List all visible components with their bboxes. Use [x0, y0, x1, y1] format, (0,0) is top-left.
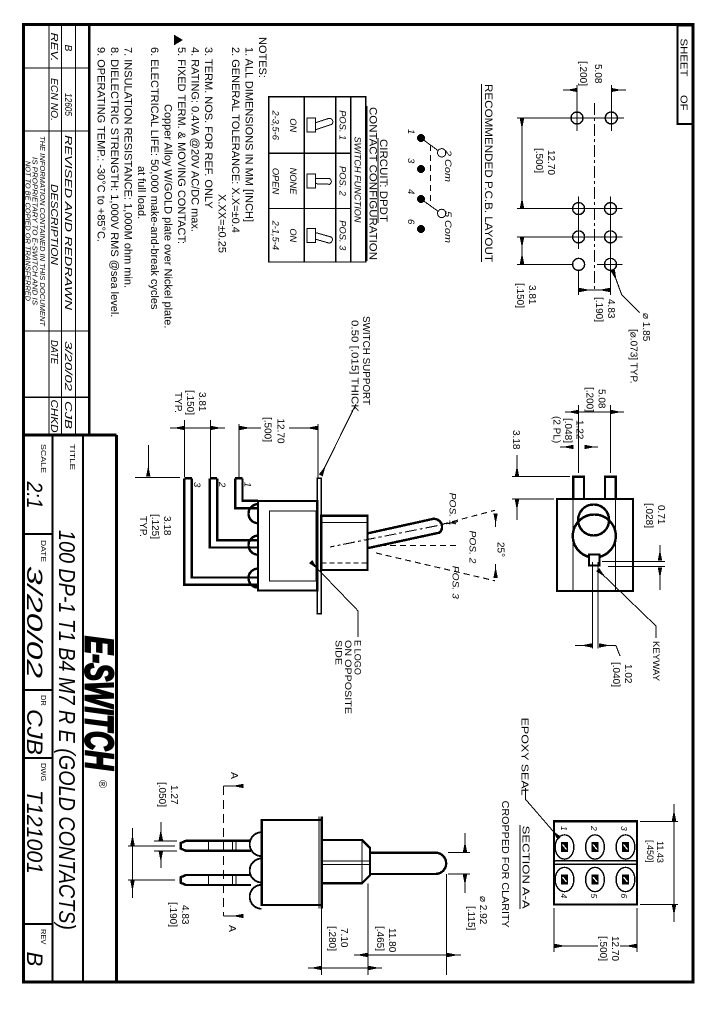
svg-text:DATE: DATE: [39, 540, 48, 562]
svg-text:[.200]: [.200]: [584, 387, 595, 412]
svg-text:[.040]: [.040]: [610, 662, 621, 687]
svg-text:⌀ 2.92: ⌀ 2.92: [477, 896, 488, 925]
svg-text:[.150]: [.150]: [514, 283, 525, 308]
svg-text:2: 2: [589, 825, 599, 831]
svg-text:X.XX=±0.25: X.XX=±0.25: [216, 194, 228, 253]
svg-text:DATE: DATE: [48, 340, 59, 364]
svg-text:25°: 25°: [495, 542, 506, 557]
svg-text:SIDE: SIDE: [334, 640, 344, 665]
svg-text:11.80: 11.80: [386, 928, 397, 953]
svg-text:1: 1: [559, 826, 569, 831]
svg-text:11.43: 11.43: [655, 841, 665, 863]
svg-text:OPEN: OPEN: [271, 168, 281, 195]
svg-text:POS. 3: POS. 3: [451, 566, 461, 600]
svg-text:THE INFORMATION CONTAINED IN T: THE INFORMATION CONTAINED IN THIS DOCUME…: [38, 136, 45, 327]
svg-text:at full load.: at full load.: [135, 166, 147, 219]
svg-text:CHKD: CHKD: [48, 400, 59, 433]
svg-text:1.27: 1.27: [168, 785, 179, 805]
svg-text:3.81: 3.81: [196, 392, 207, 412]
svg-text:Copper Alloy W/GOLD plate over: Copper Alloy W/GOLD plate over Nickel pl…: [162, 104, 174, 328]
svg-text:1. ALL DIMENSIONS IN MM [INCH]: 1. ALL DIMENSIONS IN MM [INCH]: [243, 47, 255, 222]
svg-text:[.450]: [.450]: [645, 840, 655, 863]
svg-text:5 Com: 5 Com: [442, 211, 453, 243]
svg-text:4.83: 4.83: [179, 905, 190, 925]
svg-text:[.150]: [.150]: [184, 390, 195, 415]
svg-text:3: 3: [619, 826, 629, 831]
svg-text:NOTES:: NOTES:: [256, 37, 268, 78]
svg-text:NOT TO BE COPIED OR TRANSFERRE: NOT TO BE COPIED OR TRANSFERRED: [24, 161, 31, 301]
svg-text:4: 4: [405, 189, 416, 194]
svg-text:9. OPERATING TEMP.: -30°C to +: 9. OPERATING TEMP.: -30°C to +85°C.: [94, 47, 106, 242]
svg-text:[.280]: [.280]: [326, 926, 337, 951]
svg-text:2. GENERAL TOLERANCE: X.X=±0.4: 2. GENERAL TOLERANCE: X.X=±0.4: [229, 47, 241, 233]
svg-text:E LOGO: E LOGO: [353, 640, 363, 675]
svg-text:NONE: NONE: [288, 168, 298, 196]
svg-text:TYP.: TYP.: [172, 392, 183, 413]
svg-text:A: A: [228, 772, 240, 779]
svg-text:[.500]: [.500]: [533, 148, 544, 173]
svg-text:12605: 12605: [62, 93, 73, 116]
svg-text:6: 6: [619, 894, 629, 899]
svg-text:B: B: [62, 45, 73, 52]
svg-text:[.200]: [.200]: [577, 61, 588, 86]
svg-text:CJB: CJB: [62, 401, 73, 429]
svg-text:SHEET: SHEET: [678, 39, 690, 78]
svg-text:TITLE: TITLE: [68, 444, 77, 470]
svg-text:B: B: [22, 952, 47, 967]
svg-text:DWG: DWG: [39, 763, 48, 781]
svg-text:5.08: 5.08: [592, 64, 603, 84]
svg-text:2-1,5-4: 2-1,5-4: [271, 220, 281, 250]
svg-text:KEYWAY: KEYWAY: [651, 641, 661, 681]
svg-text:8. DIELECTRIC STRENGTH: 1,000V: 8. DIELECTRIC STRENGTH: 1,000V RMS @sea …: [108, 47, 120, 317]
svg-text:⌀ 1.85: ⌀ 1.85: [640, 313, 651, 342]
svg-text:SCALE: SCALE: [39, 444, 48, 473]
svg-text:3.81: 3.81: [526, 285, 537, 305]
svg-text:T121001: T121001: [22, 790, 47, 874]
svg-text:POS. 1: POS. 1: [447, 493, 457, 526]
svg-text:2 Com: 2 Com: [442, 149, 453, 182]
svg-text:ON: ON: [288, 228, 298, 242]
svg-text:REV.: REV.: [48, 33, 59, 62]
svg-text:SWITCH FUNCTION: SWITCH FUNCTION: [353, 137, 363, 223]
svg-text:3.18: 3.18: [510, 430, 521, 450]
svg-text:2-3,5-6: 2-3,5-6: [271, 109, 281, 140]
svg-text:12.70: 12.70: [545, 150, 556, 175]
svg-text:12.70: 12.70: [609, 936, 620, 961]
svg-text:ECN NO.: ECN NO.: [48, 78, 59, 121]
svg-text:REVISED AND REDRAWN: REVISED AND REDRAWN: [62, 135, 73, 311]
svg-text:4. RATING: 0.4VA @20V AC/DC ma: 4. RATING: 0.4VA @20V AC/DC max.: [189, 47, 201, 232]
svg-text:0.50 [.015] THICK: 0.50 [.015] THICK: [349, 320, 360, 412]
svg-text:[.500]: [.500]: [597, 936, 608, 961]
svg-text:TYP.: TYP.: [137, 516, 148, 537]
svg-text:RECOMMENDED P.C.B. LAYOUT: RECOMMENDED P.C.B. LAYOUT: [482, 84, 494, 262]
svg-text:[.190]: [.190]: [167, 902, 178, 927]
svg-text:®: ®: [96, 780, 108, 788]
svg-text:POS. 2: POS. 2: [338, 166, 348, 197]
svg-text:3/20/02: 3/20/02: [62, 341, 73, 392]
svg-text:7. INSULATION RESISTANCE: 1,00: 7. INSULATION RESISTANCE: 1,000M ohm min…: [121, 47, 133, 288]
svg-text:[.125]: [.125]: [149, 514, 160, 539]
svg-text:2:1: 2:1: [22, 481, 47, 509]
svg-text:CJB: CJB: [22, 709, 47, 755]
svg-text:1.22: 1.22: [574, 420, 585, 440]
svg-text:OF: OF: [678, 95, 690, 111]
svg-text:EPOXY SEAL: EPOXY SEAL: [519, 718, 530, 797]
svg-text:SECTION A-A: SECTION A-A: [520, 826, 531, 909]
svg-text:3/20/02: 3/20/02: [22, 566, 47, 678]
svg-text:REV: REV: [39, 929, 48, 944]
svg-text:A: A: [226, 925, 238, 932]
svg-text:[.500]: [.500]: [262, 417, 273, 442]
svg-text:DR: DR: [39, 695, 48, 706]
svg-text:2: 2: [216, 481, 227, 488]
svg-text:DESCRIPTION: DESCRIPTION: [48, 184, 59, 266]
svg-text:IS PROPRIETARY TO E-SWITCH AND: IS PROPRIETARY TO E-SWITCH AND IS: [31, 157, 38, 305]
svg-text:[.190]: [.190]: [593, 297, 604, 322]
svg-text:CONTACT CONFIGURATION: CONTACT CONFIGURATION: [367, 107, 379, 260]
svg-text:[⌀.073] TYP.: [⌀.073] TYP.: [628, 329, 639, 384]
svg-text:POS. 3: POS. 3: [338, 220, 348, 251]
svg-text:3: 3: [405, 158, 416, 164]
svg-text:3: 3: [191, 482, 202, 488]
svg-text:3. TERM. NOS. FOR REF. ONLY: 3. TERM. NOS. FOR REF. ONLY: [202, 47, 214, 209]
svg-text:1: 1: [242, 482, 253, 487]
svg-text:3.18: 3.18: [161, 516, 172, 536]
svg-text:5.08: 5.08: [596, 389, 607, 409]
svg-text:[.028]: [.028]: [643, 503, 654, 528]
svg-text:4.83: 4.83: [605, 299, 616, 319]
svg-text:1.02: 1.02: [622, 664, 633, 684]
svg-text:[.048]: [.048]: [562, 418, 573, 443]
svg-text:[.115]: [.115]: [465, 906, 476, 930]
svg-text:5. FIXED TERM. & MOVING CONTAC: 5. FIXED TERM. & MOVING CONTACT:: [175, 47, 187, 244]
svg-text:100 DP-1 T1 B4 M7 R E (GOLD CO: 100 DP-1 T1 B4 M7 R E (GOLD CONTACTS): [54, 530, 80, 930]
svg-text:ON: ON: [288, 118, 298, 132]
svg-text:[.465]: [.465]: [374, 926, 385, 951]
svg-text:SWITCH SUPPORT: SWITCH SUPPORT: [360, 316, 371, 405]
svg-text:[.050]: [.050]: [156, 782, 167, 807]
svg-text:(2 PL): (2 PL): [551, 416, 562, 443]
svg-text:7.10: 7.10: [338, 928, 349, 948]
svg-text:CROPPED FOR CLARITY: CROPPED FOR CLARITY: [499, 801, 510, 928]
svg-text:E-SWITCH: E-SWITCH: [77, 636, 121, 771]
svg-text:5: 5: [589, 894, 599, 899]
svg-text:POS. 1: POS. 1: [338, 110, 348, 140]
svg-text:0.71: 0.71: [655, 505, 666, 525]
svg-text:4: 4: [559, 894, 569, 899]
svg-text:6. ELECTRICAL LIFE: 50,000 mak: 6. ELECTRICAL LIFE: 50,000 make-and-brea…: [148, 47, 160, 310]
svg-text:1: 1: [405, 129, 416, 134]
svg-text:6: 6: [405, 219, 416, 225]
svg-text:12.70: 12.70: [275, 419, 286, 444]
svg-text:POS. 2: POS. 2: [468, 531, 478, 565]
